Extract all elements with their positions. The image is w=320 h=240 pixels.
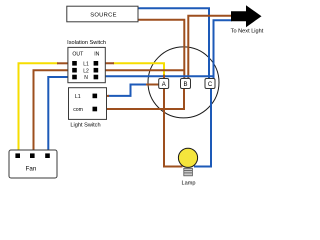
svg-text:Isolation Switch: Isolation Switch (67, 40, 106, 46)
svg-text:SOURCE: SOURCE (90, 12, 117, 18)
isolation switch terminal IN L1 (94, 61, 99, 66)
wire: blue to next light from terminal C up and right to arrow (214, 20, 233, 79)
wire: brown sleeve at light switch L1 terminal (96, 95, 109, 97)
isolation switch box (67, 40, 106, 83)
isolation switch terminal IN N (94, 75, 99, 80)
light switch box (69, 88, 107, 129)
lamp bulb (178, 148, 197, 186)
wire: brown sleeve at isolation switch IN L1 terminal (97, 62, 114, 64)
light switch terminal com (93, 107, 98, 112)
svg-text:Lamp: Lamp (182, 180, 196, 186)
svg-text:To Next Light: To Next Light (231, 29, 264, 35)
svg-text:L1: L1 (83, 62, 89, 68)
svg-text:OUT: OUT (72, 51, 84, 57)
wire: brown sleeve entering terminal A top (163, 75, 165, 80)
light switch terminal L1 (93, 94, 98, 99)
wire: brown switched live terminal A down to lamp (164, 88, 183, 167)
wire: yellow isolation switch OUT L1 to fan terminal 1 (19, 63, 59, 152)
svg-text:C: C (208, 82, 213, 88)
wire: brown isolation switch OUT L2 to fan terminal 2 (34, 70, 74, 155)
wire: live brown SOURCE to terminal B (138, 20, 184, 79)
svg-text:A: A (162, 82, 166, 88)
wire: blue neutral terminal C down to lamp (194, 88, 211, 167)
isolation switch terminal OUT L2 (72, 68, 77, 73)
wire: brown from light switch com to terminal B bottom (96, 88, 184, 109)
isolation switch terminal IN L2 (94, 68, 99, 73)
svg-text:L2: L2 (83, 68, 89, 74)
fan terminal 3 (45, 153, 50, 158)
fan box (9, 150, 57, 178)
wire: brown sleeve at isolation switch OUT L1 terminal (57, 62, 73, 64)
fan terminal 1 (15, 153, 20, 158)
svg-text:N: N (84, 75, 88, 81)
wire: neutral blue SOURCE to terminal C (138, 8, 209, 79)
svg-text:com: com (73, 107, 83, 113)
wire: brown sleeve entering terminal A left side (146, 84, 159, 86)
wire: brown sleeve at fan terminal 1 (18, 151, 20, 156)
terminal B box (181, 79, 191, 89)
arrow to next light (231, 5, 262, 27)
svg-text:L1: L1 (75, 94, 81, 100)
svg-text:B: B (183, 82, 187, 88)
wire: blue isolation switch OUT N to fan terminal 3 (48, 77, 73, 155)
svg-text:IN: IN (94, 51, 99, 57)
wire: neutral blue isolation switch IN N to terminal C (97, 75, 215, 77)
SOURCE box (67, 6, 138, 22)
wire: switched yellow from isolation switch IN L1 down to terminal A (113, 63, 164, 79)
wire: switched live blue from light switch L1 up to terminal A (108, 85, 147, 96)
terminal C box (205, 79, 215, 89)
terminal A box (159, 79, 169, 89)
wire: live brown isolation switch IN L2 to terminal B vertical (97, 69, 185, 71)
lamp screw base (184, 168, 193, 176)
junction box circle (ceiling rose) (148, 47, 219, 118)
isolation switch terminal OUT N (72, 75, 77, 80)
fan terminal 2 (30, 153, 35, 158)
svg-text:Fan: Fan (26, 166, 37, 173)
wire: brown to next light from terminal B up and right to arrow (188, 16, 232, 79)
isolation switch terminal OUT L1 (72, 61, 77, 66)
svg-text:Light Switch: Light Switch (70, 122, 100, 128)
